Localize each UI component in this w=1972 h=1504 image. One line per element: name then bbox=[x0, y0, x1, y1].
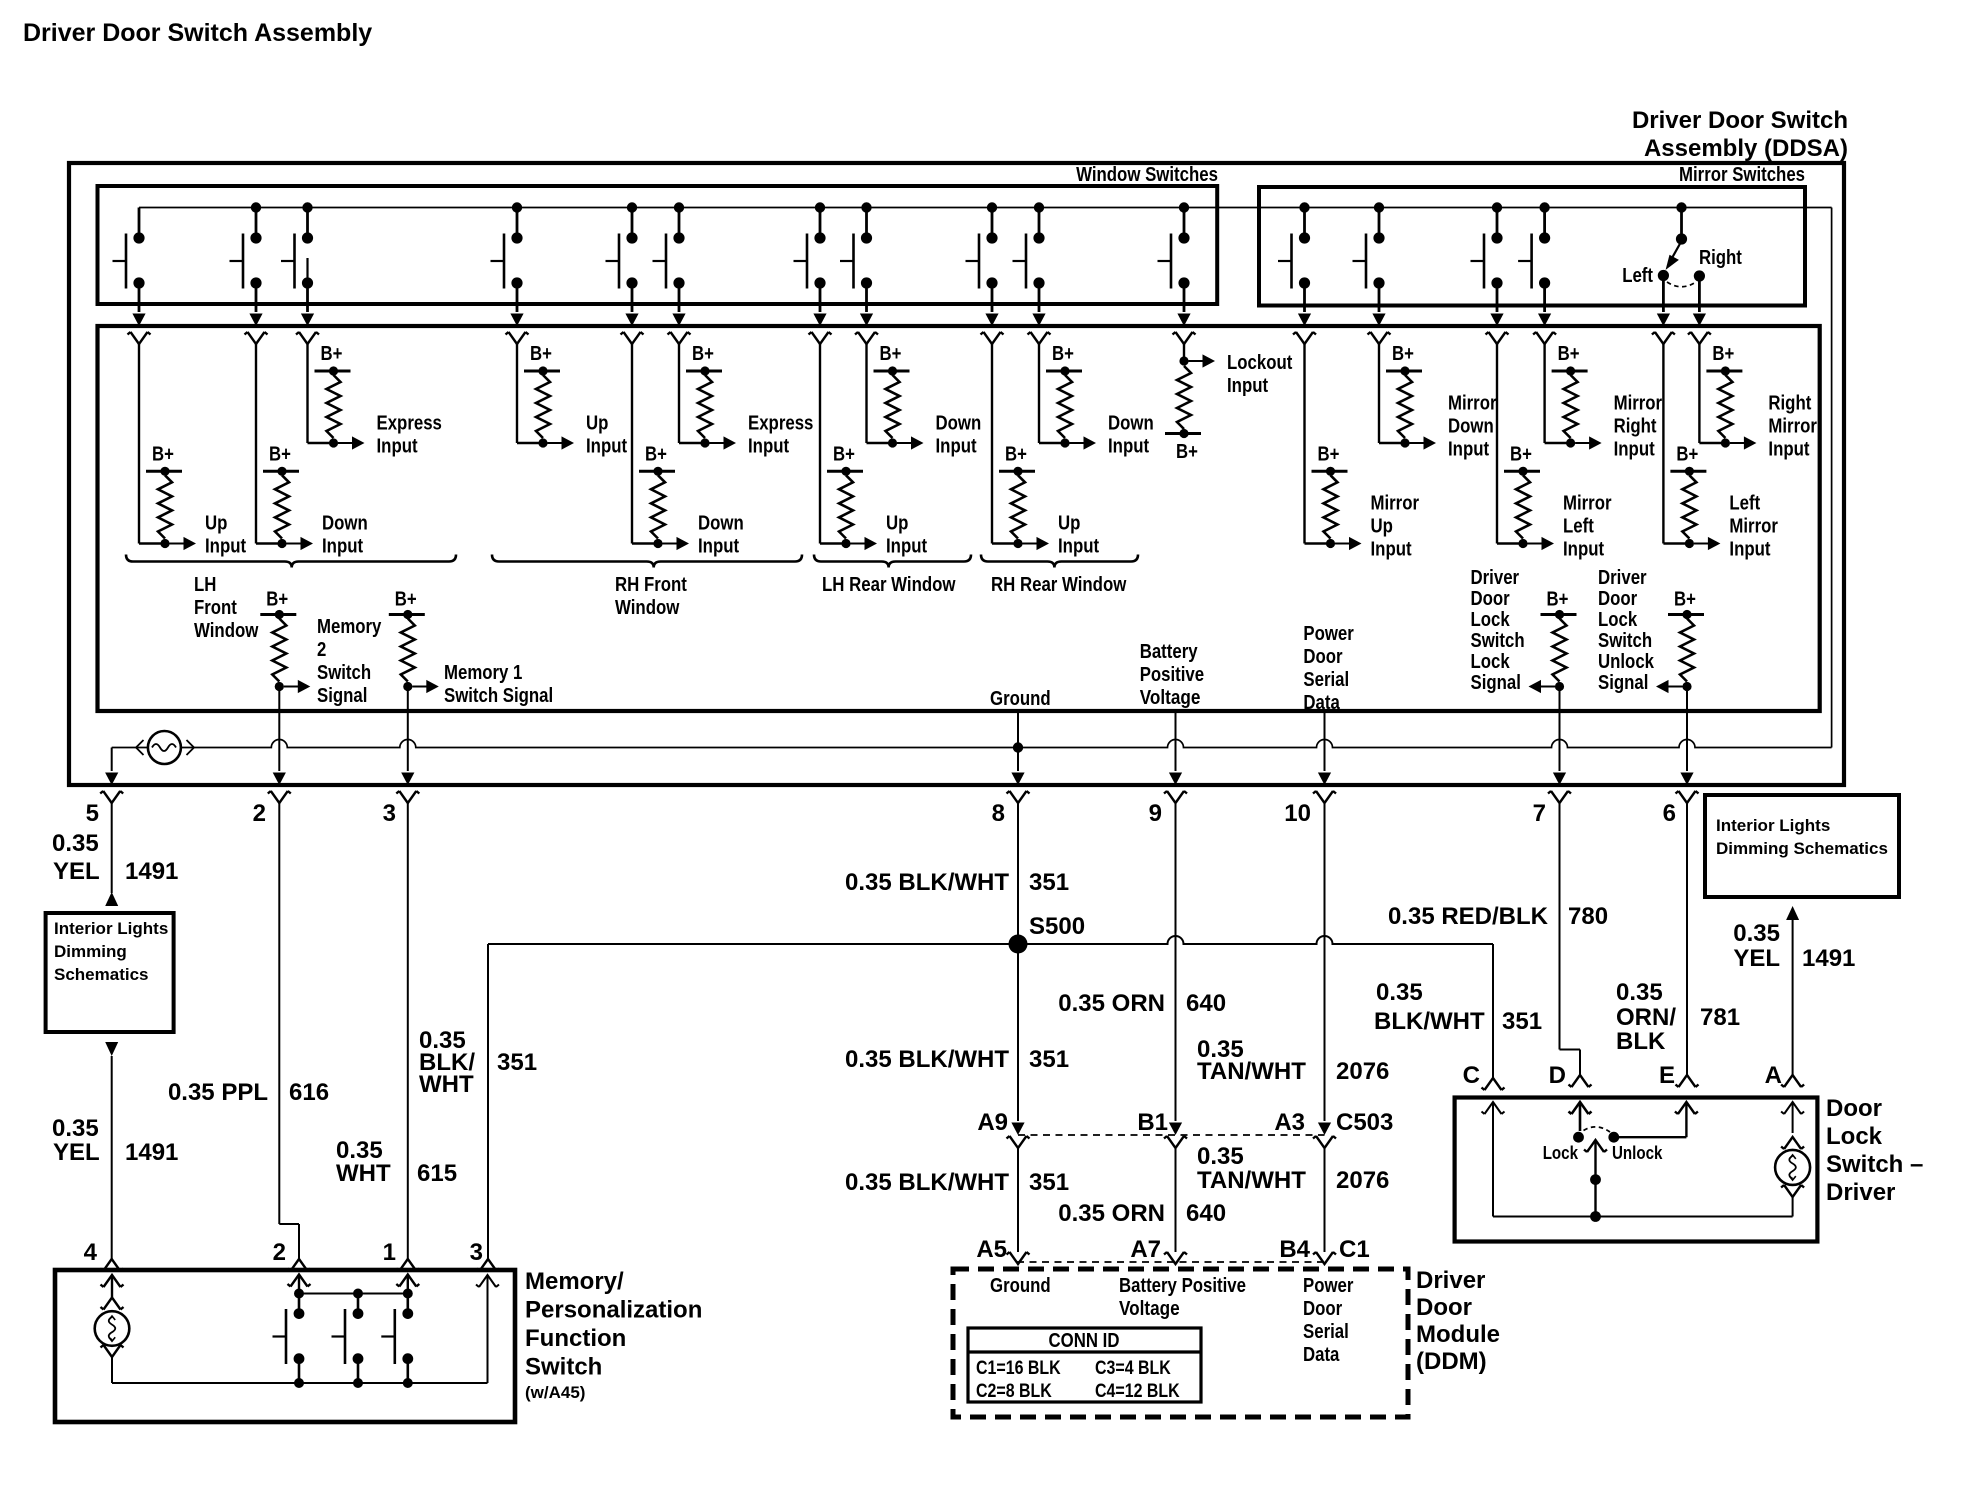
svg-text:Input: Input bbox=[586, 436, 627, 458]
svg-text:Voltage: Voltage bbox=[1140, 687, 1201, 709]
door lock pin E leg bbox=[1608, 1102, 1698, 1143]
resistor R17 + labels (right mirror input) bbox=[1699, 343, 1817, 461]
svg-text:2076: 2076 bbox=[1336, 1058, 1389, 1085]
svg-text:Door: Door bbox=[1416, 1294, 1472, 1321]
interior lights dimming schematics box (right) bbox=[1705, 795, 1899, 897]
brace RH rear window group bbox=[981, 555, 1138, 568]
door lock selector arc bbox=[1584, 1127, 1611, 1132]
wire 615 + labels bbox=[336, 803, 457, 1271]
resistor R7 + labels (LH rear up input) bbox=[820, 344, 927, 558]
label Power Door Serial Data (DDM) bbox=[1303, 1275, 1354, 1366]
svg-text:2: 2 bbox=[253, 800, 266, 827]
svg-text:Right: Right bbox=[1768, 393, 1811, 415]
svg-text:A5: A5 bbox=[976, 1236, 1007, 1263]
svg-text:Assembly (DDSA): Assembly (DDSA) bbox=[1644, 135, 1848, 162]
wire bottom return run bbox=[112, 740, 1832, 753]
resistor R10 + labels (RH rear down input) bbox=[1039, 343, 1154, 458]
svg-text:C1=16 BLK: C1=16 BLK bbox=[976, 1358, 1061, 1379]
svg-text:B+: B+ bbox=[1674, 589, 1696, 611]
resistor R14 + labels (mirror left input) bbox=[1497, 344, 1612, 561]
svg-text:Driver: Driver bbox=[1471, 567, 1520, 589]
wire 640 B1 to A7 + labels bbox=[1058, 1148, 1226, 1264]
resistor R6 + labels (RH front express input) bbox=[679, 343, 813, 458]
svg-text:B+: B+ bbox=[1176, 441, 1198, 463]
svg-text:351: 351 bbox=[497, 1049, 537, 1076]
svg-text:Left: Left bbox=[1563, 516, 1594, 538]
svg-text:0.35 PPL: 0.35 PPL bbox=[168, 1079, 268, 1106]
door lock bottom bus bbox=[1493, 1216, 1793, 1218]
svg-text:BLK: BLK bbox=[1616, 1028, 1666, 1055]
mirror select switch SW16 (left/right) bbox=[1658, 202, 1705, 286]
memory box top bus bbox=[299, 1293, 408, 1295]
svg-text:Down: Down bbox=[1448, 416, 1494, 438]
svg-text:RH Front: RH Front bbox=[615, 574, 687, 596]
svg-text:Down: Down bbox=[322, 513, 368, 535]
svg-text:6: 6 bbox=[1663, 800, 1676, 827]
mirror switches box bbox=[1259, 187, 1805, 306]
svg-text:Signal: Signal bbox=[1598, 672, 1648, 694]
svg-text:B+: B+ bbox=[1676, 443, 1698, 465]
window switch SW8 LH rear down bbox=[840, 202, 878, 344]
svg-text:3: 3 bbox=[470, 1239, 483, 1266]
svg-text:A3: A3 bbox=[1274, 1109, 1305, 1136]
svg-text:Driver Door Switch: Driver Door Switch bbox=[1632, 107, 1848, 134]
label Memory/Personalization Function Switch bbox=[525, 1268, 702, 1402]
svg-text:A9: A9 bbox=[977, 1109, 1008, 1136]
label Unlock bbox=[1612, 1143, 1663, 1163]
resistor R9 + labels (RH rear up input) bbox=[992, 344, 1099, 558]
svg-text:WHT: WHT bbox=[419, 1071, 474, 1098]
svg-text:Dimming: Dimming bbox=[54, 942, 127, 961]
mirror switch SW12 mirror up bbox=[1278, 202, 1316, 344]
label Battery Positive Voltage (DDM) bbox=[1119, 1275, 1246, 1320]
wire 351 S500 to A9 + labels bbox=[845, 944, 1069, 1148]
svg-text:TAN/WHT: TAN/WHT bbox=[1197, 1167, 1306, 1194]
window switches box bbox=[98, 186, 1218, 304]
resistor R8 + labels (LH rear down input) bbox=[867, 343, 982, 458]
twisted-lead symbol on return wire bbox=[136, 731, 194, 764]
mirror switch SW13 mirror down bbox=[1353, 202, 1391, 344]
wire 351 from pin 8 + labels bbox=[845, 803, 1069, 944]
label Door Lock Switch - Driver bbox=[1826, 1095, 1923, 1206]
svg-text:Up: Up bbox=[1371, 516, 1393, 538]
resistor R16 + labels (left mirror input) bbox=[1663, 344, 1778, 561]
resistor R13 + labels (mirror down input) bbox=[1379, 343, 1497, 461]
svg-text:Driver: Driver bbox=[1416, 1267, 1485, 1294]
svg-text:Module: Module bbox=[1416, 1321, 1500, 1348]
svg-text:B+: B+ bbox=[269, 443, 291, 465]
label Battery Positive Voltage (DDSA) bbox=[1140, 641, 1204, 709]
svg-text:Input: Input bbox=[377, 436, 418, 458]
svg-text:Input: Input bbox=[1729, 539, 1770, 561]
svg-text:Lock: Lock bbox=[1826, 1123, 1883, 1150]
svg-text:Input: Input bbox=[1563, 539, 1604, 561]
off-page arrow into interior lights box bbox=[105, 892, 118, 906]
svg-text:Front: Front bbox=[194, 597, 237, 619]
svg-text:Left: Left bbox=[1729, 493, 1760, 515]
wire 1491 lower + labels bbox=[52, 1056, 178, 1271]
svg-text:Lock: Lock bbox=[1598, 609, 1638, 631]
svg-text:Voltage: Voltage bbox=[1119, 1298, 1180, 1320]
off-page arrow out of interior lights box bbox=[105, 1042, 118, 1056]
svg-text:Door: Door bbox=[1471, 588, 1510, 610]
DDSA inner component box bbox=[98, 326, 1820, 711]
diagram title bbox=[23, 19, 372, 47]
svg-text:A7: A7 bbox=[1130, 1236, 1161, 1263]
svg-text:Data: Data bbox=[1303, 692, 1340, 714]
memory box right riser bbox=[476, 1275, 499, 1383]
svg-text:Input: Input bbox=[886, 536, 927, 558]
window switch SW3 LH front express bbox=[281, 202, 319, 344]
door lock pin A leg bbox=[1775, 1102, 1810, 1217]
svg-text:C2=8 BLK: C2=8 BLK bbox=[976, 1381, 1052, 1402]
svg-text:A: A bbox=[1765, 1062, 1782, 1089]
svg-text:Mirror: Mirror bbox=[1448, 393, 1497, 415]
svg-text:Input: Input bbox=[1768, 439, 1809, 461]
svg-text:1491: 1491 bbox=[125, 1139, 178, 1166]
label Power Door Serial Data (DDSA) bbox=[1303, 623, 1354, 714]
svg-text:B+: B+ bbox=[880, 343, 902, 365]
svg-text:Input: Input bbox=[698, 536, 739, 558]
svg-text:0.35 BLK/WHT: 0.35 BLK/WHT bbox=[845, 1046, 1009, 1073]
svg-text:Memory 1: Memory 1 bbox=[444, 662, 522, 684]
svg-text:Input: Input bbox=[1614, 439, 1655, 461]
svg-text:D: D bbox=[1549, 1062, 1566, 1089]
svg-text:351: 351 bbox=[1029, 1169, 1069, 1196]
label RH Front Window bbox=[615, 574, 687, 619]
svg-text:WHT: WHT bbox=[336, 1160, 391, 1187]
wire pin 10 exit (serial data) bbox=[1284, 711, 1336, 827]
svg-text:YEL: YEL bbox=[53, 858, 100, 885]
brace LH rear window group bbox=[814, 555, 971, 568]
svg-text:B+: B+ bbox=[1005, 443, 1027, 465]
CONN ID table bbox=[968, 1328, 1201, 1402]
label Driver Door Module (DDM) bbox=[1416, 1267, 1500, 1375]
svg-text:B+: B+ bbox=[645, 443, 667, 465]
memory switch pin 4 leg bbox=[101, 1275, 124, 1310]
svg-text:YEL: YEL bbox=[53, 1139, 100, 1166]
label LH Front Window bbox=[194, 574, 259, 642]
svg-text:Memory: Memory bbox=[317, 616, 382, 638]
svg-text:B+: B+ bbox=[1052, 343, 1074, 365]
svg-text:Personalization: Personalization bbox=[525, 1297, 702, 1324]
svg-text:B+: B+ bbox=[833, 443, 855, 465]
wire 640 pin 9 to B1 + labels bbox=[1058, 803, 1226, 1148]
wire 1491 right + labels bbox=[1733, 920, 1855, 1089]
resistor R21 + labels (driver door lock switch unlock signal) bbox=[1598, 567, 1704, 694]
svg-text:Positive: Positive bbox=[1140, 664, 1204, 686]
wire 2076 A3 to B4 + labels bbox=[1197, 1143, 1389, 1264]
svg-text:Express: Express bbox=[377, 413, 442, 435]
label Ground (DDSA) bbox=[990, 688, 1051, 710]
svg-text:B+: B+ bbox=[266, 589, 288, 611]
wire 616 + labels bbox=[168, 803, 329, 1271]
svg-text:2: 2 bbox=[317, 639, 326, 661]
svg-text:(w/A45): (w/A45) bbox=[525, 1383, 585, 1402]
svg-text:0.35 ORN: 0.35 ORN bbox=[1058, 990, 1165, 1017]
door lock pin C leg bbox=[1482, 1102, 1505, 1217]
svg-text:RH Rear Window: RH Rear Window bbox=[991, 574, 1127, 596]
svg-text:Mirror: Mirror bbox=[1371, 493, 1420, 515]
svg-text:0.35: 0.35 bbox=[1733, 920, 1780, 947]
label Mirror Switches bbox=[1679, 164, 1805, 186]
svg-text:Window Switches: Window Switches bbox=[1076, 164, 1218, 186]
svg-text:Right: Right bbox=[1614, 416, 1657, 438]
svg-text:Mirror: Mirror bbox=[1768, 416, 1817, 438]
wire 351 A9 to A5 + labels bbox=[845, 1148, 1069, 1264]
svg-text:Door: Door bbox=[1303, 646, 1342, 668]
wire switch common bus bbox=[139, 207, 1832, 209]
svg-text:640: 640 bbox=[1186, 990, 1226, 1017]
memory box lower leg bbox=[101, 1345, 124, 1383]
svg-text:B+: B+ bbox=[1318, 443, 1340, 465]
svg-text:C503: C503 bbox=[1336, 1109, 1393, 1136]
memory switch button 1 bbox=[273, 1289, 305, 1389]
window switch SW2 LH front down bbox=[230, 202, 268, 344]
svg-text:Data: Data bbox=[1303, 1344, 1340, 1366]
svg-text:4: 4 bbox=[84, 1239, 98, 1266]
svg-text:Unlock: Unlock bbox=[1598, 651, 1655, 673]
svg-text:351: 351 bbox=[1029, 869, 1069, 896]
svg-text:Mirror: Mirror bbox=[1614, 393, 1663, 415]
svg-text:CONN ID: CONN ID bbox=[1049, 1330, 1120, 1352]
svg-text:YEL: YEL bbox=[1733, 945, 1780, 972]
svg-text:2076: 2076 bbox=[1336, 1167, 1389, 1194]
window switch SW10 RH rear down bbox=[1013, 202, 1051, 344]
svg-text:B+: B+ bbox=[1558, 343, 1580, 365]
DDSA outer box bbox=[69, 163, 1844, 785]
svg-text:Input: Input bbox=[205, 536, 246, 558]
svg-text:8: 8 bbox=[992, 800, 1005, 827]
svg-text:Door: Door bbox=[1598, 588, 1637, 610]
svg-text:0.35: 0.35 bbox=[52, 1115, 99, 1142]
svg-text:TAN/WHT: TAN/WHT bbox=[1197, 1058, 1306, 1085]
memory/personalization switch box bbox=[55, 1270, 515, 1422]
svg-text:Window: Window bbox=[194, 620, 259, 642]
svg-text:Down: Down bbox=[1108, 413, 1154, 435]
interior lights dimming schematics box (left) bbox=[46, 913, 174, 1032]
svg-text:Door: Door bbox=[1303, 1298, 1342, 1320]
resistor R1 + labels (LH front up input) bbox=[139, 344, 246, 558]
svg-text:0.35 BLK/WHT: 0.35 BLK/WHT bbox=[845, 869, 1009, 896]
wire 781 + labels bbox=[1616, 803, 1740, 1089]
window switch SW4 RH front up bbox=[491, 202, 529, 344]
svg-text:Signal: Signal bbox=[1471, 672, 1521, 694]
svg-text:640: 640 bbox=[1186, 1200, 1226, 1227]
memory switch button 3 bbox=[381, 1289, 413, 1389]
svg-text:Switch: Switch bbox=[1598, 630, 1652, 652]
window switch SW7 LH rear up bbox=[794, 202, 832, 344]
svg-text:0.35: 0.35 bbox=[1376, 979, 1423, 1006]
svg-text:Down: Down bbox=[936, 413, 982, 435]
window switch SW11 lockout bbox=[1158, 202, 1196, 344]
svg-text:Lock: Lock bbox=[1471, 609, 1511, 631]
svg-text:BLK/WHT: BLK/WHT bbox=[1374, 1008, 1485, 1035]
svg-text:Up: Up bbox=[586, 413, 608, 435]
svg-text:351: 351 bbox=[1029, 1046, 1069, 1073]
svg-text:B+: B+ bbox=[1392, 343, 1414, 365]
brace RH front window group bbox=[492, 555, 802, 568]
wire pin 6 exit (unlock signal) bbox=[1663, 687, 1699, 828]
svg-text:0.35: 0.35 bbox=[1616, 979, 1663, 1006]
svg-text:Up: Up bbox=[1058, 513, 1080, 535]
resistor R2 + labels (LH front down input) bbox=[256, 344, 368, 558]
svg-text:B+: B+ bbox=[692, 343, 714, 365]
twisted-lead symbol (memory box) bbox=[95, 1311, 130, 1346]
label Left bbox=[1622, 265, 1653, 287]
svg-text:781: 781 bbox=[1700, 1004, 1740, 1031]
svg-text:B+: B+ bbox=[395, 589, 417, 611]
resistor R12 + labels (mirror up input) bbox=[1305, 344, 1420, 561]
svg-text:Switch: Switch bbox=[525, 1354, 602, 1381]
door lock pin D leg bbox=[1569, 1102, 1592, 1143]
label Driver Door Switch Assembly (DDSA) bbox=[1632, 107, 1848, 162]
memory switch pin 1 arrow bbox=[396, 1275, 419, 1294]
svg-text:ORN/: ORN/ bbox=[1616, 1004, 1676, 1031]
svg-text:LH Rear Window: LH Rear Window bbox=[822, 574, 956, 596]
svg-text:Down: Down bbox=[698, 513, 744, 535]
connector C503 dashed line bbox=[1018, 1134, 1325, 1136]
wire pin 8 exit (ground) bbox=[992, 711, 1030, 827]
svg-text:Ground: Ground bbox=[990, 1275, 1051, 1297]
label Window Switches bbox=[1076, 164, 1218, 186]
label Ground (DDM) bbox=[990, 1275, 1051, 1297]
svg-text:C1: C1 bbox=[1339, 1236, 1370, 1263]
svg-text:B+: B+ bbox=[152, 443, 174, 465]
svg-text:Battery Positive: Battery Positive bbox=[1119, 1275, 1246, 1297]
svg-text:Unlock: Unlock bbox=[1612, 1143, 1663, 1163]
window switch SW5 RH front down bbox=[606, 202, 644, 344]
memory box bottom bus bbox=[112, 1382, 488, 1384]
resistor R11 + labels (lockout input) bbox=[1165, 344, 1293, 463]
svg-text:7: 7 bbox=[1533, 800, 1546, 827]
svg-text:Right: Right bbox=[1699, 247, 1742, 269]
svg-text:1491: 1491 bbox=[125, 858, 178, 885]
svg-text:0.35: 0.35 bbox=[1197, 1143, 1244, 1170]
svg-text:Mirror Switches: Mirror Switches bbox=[1679, 164, 1805, 186]
svg-text:Express: Express bbox=[748, 413, 813, 435]
svg-text:S500: S500 bbox=[1029, 913, 1085, 940]
svg-text:Schematics: Schematics bbox=[54, 965, 149, 984]
window switch SW6 RH front express bbox=[653, 202, 691, 344]
wire 351 memory leg + labels bbox=[419, 944, 537, 1271]
memory switch button 2 bbox=[332, 1289, 364, 1389]
door lock switch box bbox=[1455, 1098, 1818, 1242]
off-page arrow below right interior lights box bbox=[1786, 906, 1799, 920]
svg-text:780: 780 bbox=[1568, 903, 1608, 930]
svg-text:Lockout: Lockout bbox=[1227, 352, 1293, 374]
svg-text:Input: Input bbox=[936, 436, 977, 458]
svg-text:Switch –: Switch – bbox=[1826, 1151, 1923, 1178]
svg-text:C: C bbox=[1463, 1062, 1480, 1089]
svg-text:5: 5 bbox=[86, 800, 99, 827]
svg-text:Input: Input bbox=[1108, 436, 1149, 458]
svg-text:Input: Input bbox=[748, 436, 789, 458]
svg-text:3: 3 bbox=[383, 800, 396, 827]
svg-text:B+: B+ bbox=[1547, 589, 1569, 611]
wire 351 S500 to C + labels bbox=[1374, 944, 1542, 1090]
window switch SW9 RH rear up bbox=[966, 202, 1004, 344]
svg-text:0.35 ORN: 0.35 ORN bbox=[1058, 1200, 1165, 1227]
wire pin 5 exit bbox=[86, 748, 124, 828]
svg-text:B+: B+ bbox=[530, 343, 552, 365]
svg-text:2: 2 bbox=[273, 1239, 286, 1266]
resistor R3 + labels (LH front express input) bbox=[308, 343, 442, 458]
svg-text:B4: B4 bbox=[1279, 1236, 1310, 1263]
svg-text:Serial: Serial bbox=[1303, 669, 1349, 691]
svg-text:LH: LH bbox=[194, 574, 216, 596]
svg-text:Signal: Signal bbox=[317, 685, 367, 707]
wire mirror select left contact to box bbox=[1652, 276, 1675, 345]
svg-text:Window: Window bbox=[615, 597, 680, 619]
wire 1491 upper + labels bbox=[52, 803, 178, 893]
svg-text:C4=12 BLK: C4=12 BLK bbox=[1095, 1381, 1180, 1402]
label LH Rear Window bbox=[822, 574, 956, 596]
label RH Rear Window bbox=[991, 574, 1127, 596]
svg-text:Input: Input bbox=[1371, 539, 1412, 561]
wire 2076 pin 10 to A3 + labels bbox=[1197, 803, 1393, 1148]
svg-text:Left: Left bbox=[1622, 265, 1653, 287]
svg-text:0.35 BLK/WHT: 0.35 BLK/WHT bbox=[845, 1169, 1009, 1196]
mirror switch SW15 mirror right bbox=[1518, 202, 1556, 344]
svg-text:Mirror: Mirror bbox=[1563, 493, 1612, 515]
mirror switch SW14 mirror left bbox=[1471, 202, 1509, 344]
memory switch pin 2 arrow bbox=[288, 1275, 311, 1294]
svg-text:B+: B+ bbox=[1712, 343, 1734, 365]
wire pin 2 exit bbox=[253, 687, 291, 828]
label Lock bbox=[1543, 1143, 1579, 1163]
svg-text:Mirror: Mirror bbox=[1729, 516, 1778, 538]
svg-text:0.35: 0.35 bbox=[52, 830, 99, 857]
resistor R4 + labels (RH front up input) bbox=[517, 343, 627, 458]
svg-text:(DDM): (DDM) bbox=[1416, 1348, 1487, 1375]
svg-text:B+: B+ bbox=[321, 343, 343, 365]
svg-text:Battery: Battery bbox=[1140, 641, 1199, 663]
svg-text:351: 351 bbox=[1502, 1008, 1542, 1035]
driver door module (DDM) dashed box bbox=[953, 1269, 1408, 1417]
svg-text:Power: Power bbox=[1303, 623, 1354, 645]
svg-text:Serial: Serial bbox=[1303, 1321, 1349, 1343]
resistor R19 + labels (memory 1 switch signal) bbox=[389, 589, 553, 708]
svg-text:Switch: Switch bbox=[1471, 630, 1525, 652]
svg-text:Up: Up bbox=[886, 513, 908, 535]
svg-text:Dimming Schematics: Dimming Schematics bbox=[1716, 839, 1888, 858]
svg-text:Switch: Switch bbox=[317, 662, 371, 684]
svg-text:Input: Input bbox=[1227, 375, 1268, 397]
brace LH front window group bbox=[126, 555, 456, 568]
wire pin 9 exit (battery positive) bbox=[1149, 711, 1187, 827]
svg-text:Ground: Ground bbox=[990, 688, 1051, 710]
svg-text:10: 10 bbox=[1284, 800, 1311, 827]
window switch SW1 LH front up bbox=[113, 208, 151, 345]
wire pin 3 exit bbox=[383, 687, 420, 828]
resistor R15 + labels (mirror right input) bbox=[1545, 343, 1663, 461]
svg-text:9: 9 bbox=[1149, 800, 1162, 827]
resistor R20 + labels (driver door lock switch lock signal) bbox=[1471, 567, 1577, 694]
svg-text:Interior Lights: Interior Lights bbox=[54, 919, 168, 938]
svg-text:B+: B+ bbox=[1510, 443, 1532, 465]
svg-text:0.35 RED/BLK: 0.35 RED/BLK bbox=[1388, 903, 1549, 930]
svg-text:Lock: Lock bbox=[1471, 651, 1511, 673]
svg-text:Function: Function bbox=[525, 1325, 626, 1352]
resistor R18 + labels (memory 2 switch signal) bbox=[260, 589, 382, 708]
splice S500 bbox=[488, 913, 1493, 954]
svg-text:615: 615 bbox=[417, 1160, 457, 1187]
wire bus right return bbox=[1831, 208, 1833, 748]
svg-text:E: E bbox=[1659, 1062, 1675, 1089]
svg-text:Switch Signal: Switch Signal bbox=[444, 685, 553, 707]
svg-text:616: 616 bbox=[289, 1079, 329, 1106]
